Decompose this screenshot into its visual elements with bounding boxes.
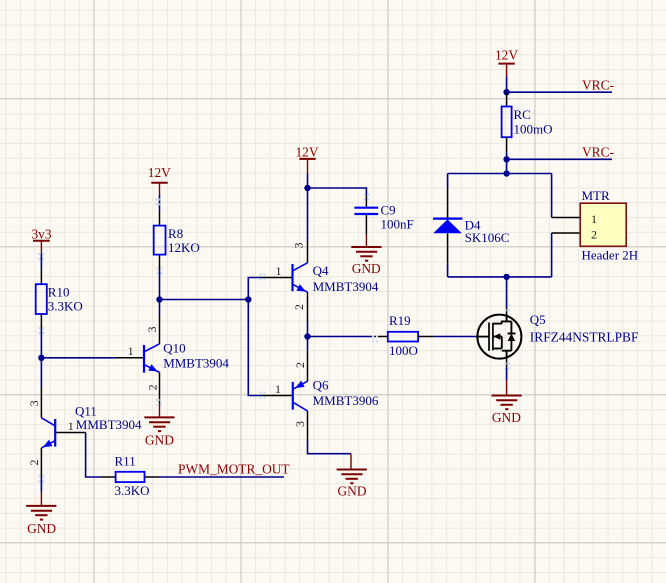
wire Q4 emitter to node D [307, 322, 309, 337]
net label PWM_MOTR_OUT [178, 462, 290, 477]
svg-text:3: 3 [291, 243, 305, 249]
svg-text:100O: 100O [389, 343, 418, 358]
wire Q4 collector up [307, 188, 309, 243]
mosfet Q5 [477, 305, 638, 370]
ground GND under Q6 [337, 454, 367, 499]
svg-text:100nF: 100nF [381, 216, 414, 231]
svg-text:IRFZ44NSTRLPBF: IRFZ44NSTRLPBF [530, 330, 639, 345]
header MTR [552, 188, 639, 263]
net label VRC- lower [582, 144, 614, 159]
svg-text:PWM_MOTR_OUT: PWM_MOTR_OUT [178, 462, 290, 477]
wire top rail to D4 [447, 174, 449, 189]
svg-text:12V: 12V [148, 165, 171, 180]
resistor R19 [372, 313, 433, 358]
resistor R8 [154, 199, 200, 275]
svg-text:R19: R19 [389, 313, 411, 328]
wire Q10 collector to node B [159, 300, 161, 316]
svg-text:MMBT3906: MMBT3906 [313, 393, 379, 408]
svg-text:RC: RC [514, 107, 531, 122]
wire Q11 emitter to GND [40, 477, 42, 491]
wire bottom rail to header pin 2 [551, 233, 553, 277]
wire R10 to node A [40, 329, 42, 358]
svg-text:100mO: 100mO [514, 122, 553, 137]
junction node D [304, 333, 310, 339]
wire 12V to R8 [159, 195, 161, 211]
svg-text:3: 3 [145, 327, 159, 333]
junction node G [503, 156, 509, 162]
transistor Q11 [27, 388, 142, 482]
svg-text:1: 1 [591, 212, 597, 226]
resistor R11 [101, 453, 160, 498]
wire 12V middle to node E [307, 173, 309, 188]
transistor Q6 [260, 351, 379, 441]
power port 12V top right [495, 47, 518, 76]
svg-text:GND: GND [27, 521, 56, 536]
svg-text:GND: GND [337, 483, 366, 498]
svg-text:GND: GND [145, 433, 174, 448]
wire top rail to header pin 1 [551, 174, 553, 218]
wire D4 to bottom rail [447, 263, 449, 277]
svg-text:3.3KO: 3.3KO [48, 299, 83, 314]
svg-text:GND: GND [492, 410, 521, 425]
wire node C vertical Q4 base to Q6 base [248, 278, 261, 396]
ground GND under C9 [351, 234, 381, 276]
junction node F [503, 89, 509, 95]
svg-text:GND: GND [352, 261, 381, 276]
svg-text:Q6: Q6 [313, 378, 329, 393]
wire node A to Q10 base [41, 357, 114, 359]
svg-text:1: 1 [128, 344, 134, 358]
power port 12V middle [295, 145, 318, 174]
svg-text:SK106C: SK106C [465, 230, 510, 245]
svg-text:3: 3 [293, 421, 307, 427]
svg-text:MMBT3904: MMBT3904 [76, 417, 142, 432]
wire Q6 emitter to node D [307, 337, 309, 351]
svg-text:12KO: 12KO [168, 240, 200, 255]
svg-text:12V: 12V [295, 145, 318, 160]
wire node F to VRC- [507, 91, 612, 93]
svg-text:1: 1 [276, 264, 282, 278]
svg-text:3v3: 3v3 [31, 226, 51, 241]
svg-text:Header 2H: Header 2H [582, 248, 639, 263]
svg-text:Q5: Q5 [530, 312, 546, 327]
svg-text:12V: 12V [495, 47, 518, 62]
svg-text:2: 2 [146, 384, 160, 390]
wire Q11 base to R11 [86, 433, 101, 478]
junction node C [245, 296, 251, 302]
svg-text:MMBT3904: MMBT3904 [313, 279, 379, 294]
junction on top rail [503, 170, 509, 176]
wire Q5 drain up [506, 277, 508, 307]
svg-text:2: 2 [27, 460, 41, 466]
junction node E [304, 185, 310, 191]
ground GND bottom left [26, 492, 56, 537]
svg-text:2: 2 [292, 304, 306, 310]
wire node B to node C [160, 299, 249, 301]
svg-text:3: 3 [27, 400, 41, 406]
ground GND under Q10 [144, 403, 174, 448]
power port 12V left [148, 165, 171, 195]
svg-text:1: 1 [68, 419, 74, 433]
wire Q5 source down [506, 367, 508, 380]
wire R8 to node B [159, 270, 161, 300]
svg-text:R10: R10 [48, 285, 70, 300]
wire Q6 collector to GND [308, 441, 352, 454]
diode D4 [433, 189, 509, 264]
wire bottom rail [448, 276, 552, 278]
capacitor C9 [354, 194, 413, 235]
junction node A [38, 355, 44, 361]
resistor R10 [36, 269, 83, 334]
transistor Q10 [115, 315, 230, 406]
wire RC to node G [506, 152, 508, 159]
wire node A down to Q11 collector [40, 358, 42, 388]
wire node E to C9 [308, 188, 367, 195]
ground GND under Q5 [492, 380, 522, 425]
svg-text:3.3KO: 3.3KO [115, 483, 150, 498]
svg-text:R11: R11 [115, 453, 136, 468]
junction node B [156, 296, 162, 302]
wire 3v3 to R10 [40, 254, 42, 269]
resistor RC [502, 92, 553, 152]
svg-text:2: 2 [293, 362, 307, 368]
svg-text:Q10: Q10 [163, 340, 185, 355]
svg-text:Q4: Q4 [313, 263, 329, 278]
wire node D to R19 [308, 336, 373, 338]
wire node G to VRC- [507, 158, 612, 160]
wire R19 to Q5 gate [433, 336, 477, 338]
svg-text:2: 2 [591, 227, 597, 241]
wire top rail [448, 173, 552, 175]
power port 3v3 [31, 226, 51, 260]
net label VRC- upper [582, 77, 614, 92]
svg-text:VRC-: VRC- [582, 77, 614, 92]
wire R11 to net label [160, 476, 285, 478]
svg-text:VRC-: VRC- [582, 144, 614, 159]
svg-text:MTR: MTR [582, 188, 611, 203]
svg-text:1: 1 [275, 382, 281, 396]
wire 12V top right to node F [506, 76, 508, 92]
wire node G down to top rail [506, 159, 508, 173]
svg-text:R8: R8 [168, 226, 183, 241]
svg-text:MMBT3904: MMBT3904 [163, 356, 229, 371]
junction on bottom rail [503, 274, 509, 280]
transistor Q4 [260, 243, 379, 323]
